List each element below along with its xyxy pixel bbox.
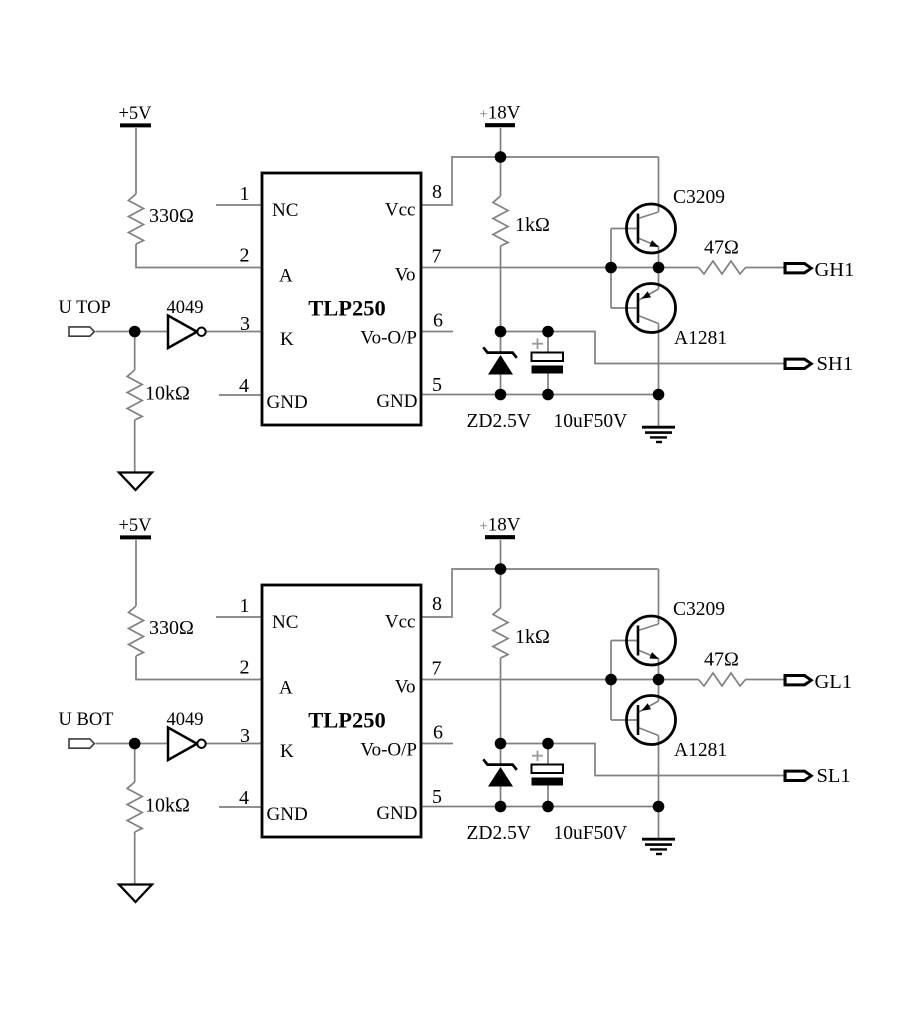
svg-text:SH1: SH1 <box>817 353 853 375</box>
svg-text:GL1: GL1 <box>815 671 853 693</box>
svg-text:GH1: GH1 <box>815 259 855 281</box>
svg-text:U TOP: U TOP <box>59 298 111 318</box>
svg-text:U BOT: U BOT <box>59 710 114 730</box>
svg-text:SL1: SL1 <box>817 765 851 787</box>
